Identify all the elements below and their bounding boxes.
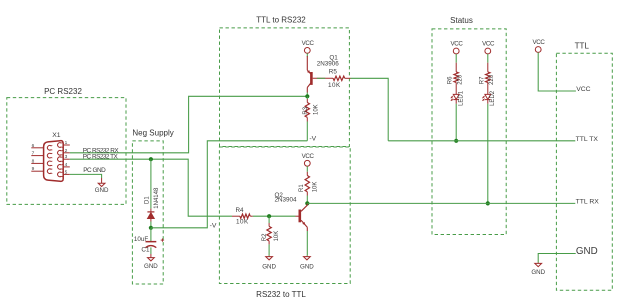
label PC RS232 RX [83, 147, 120, 154]
svg-text:PC RS232: PC RS232 [44, 87, 82, 96]
wire R2 top [268, 216, 270, 226]
svg-text:D1: D1 [145, 196, 151, 204]
resistor R1 10K [305, 176, 309, 192]
wire R6 to LED1 [455, 83, 457, 95]
resistor R2 10K [267, 226, 271, 241]
wire PC RS232 TX net (pin3 to R4) [70, 159, 232, 216]
pin numbers X1 [32, 140, 68, 175]
wire VCC to Q1 emitter [306, 53, 308, 56]
wire R1 bottom to node [306, 192, 308, 204]
node junction R4/R2/base [267, 214, 271, 218]
label 2N3904 (Q2 value) [275, 197, 298, 204]
label R3 [303, 106, 309, 114]
svg-text:PC RS232 TX: PC RS232 TX [83, 154, 119, 161]
label R1 [299, 184, 305, 192]
svg-text:10K: 10K [274, 231, 280, 242]
svg-text:TTL TX: TTL TX [576, 136, 599, 143]
svg-text:RS232 to TTL: RS232 to TTL [256, 290, 306, 299]
wire D1 anode to -V node [150, 222, 152, 228]
transistor Q1 2N3906 [307, 56, 311, 93]
wire R3 bottom to -V [306, 117, 308, 140]
wire D1 anode from TX line [150, 159, 152, 212]
svg-text:4: 4 [65, 162, 68, 168]
svg-text:2N3906: 2N3906 [317, 60, 340, 67]
svg-text:220: 220 [458, 74, 464, 85]
label 220 (R7 value) [489, 74, 495, 85]
label R6 [448, 76, 454, 84]
ground Q2 GND symbol [300, 256, 314, 271]
svg-text:X1: X1 [52, 132, 61, 139]
ground R2 GND symbol [262, 256, 276, 271]
svg-text:-V: -V [210, 222, 217, 229]
label Q2 [275, 192, 284, 199]
svg-text:VCC: VCC [302, 40, 315, 47]
resistor R7 220 [486, 72, 490, 83]
svg-text:TTL: TTL [575, 42, 590, 51]
power VCC at R7 [482, 41, 495, 54]
wire TTL RX net [307, 202, 575, 204]
label TTL TX [576, 136, 599, 143]
svg-text:9: 9 [32, 166, 35, 172]
svg-text:GND: GND [300, 264, 314, 271]
wire C1 top [150, 228, 152, 241]
label Q1 [329, 54, 338, 61]
svg-text:VCC: VCC [482, 41, 495, 48]
wire VCC to R7 [487, 54, 489, 72]
label LED2 [490, 90, 496, 106]
svg-text:GND: GND [144, 263, 158, 270]
wire Q2 base to R4/R2 node [253, 215, 296, 217]
label 10K (R2 value) [274, 231, 280, 242]
wire GND to TTL box [538, 254, 576, 263]
wire LED2 to bus [487, 104, 489, 204]
svg-text:LED1: LED1 [458, 90, 464, 106]
label 10uF [134, 236, 149, 243]
svg-text:10K: 10K [328, 82, 341, 89]
svg-text:Status: Status [450, 16, 473, 25]
svg-text:R1: R1 [299, 184, 305, 192]
svg-text:10K: 10K [314, 104, 320, 115]
svg-text:R7: R7 [479, 76, 485, 84]
label TTL RX [576, 198, 600, 205]
svg-text:GND: GND [262, 264, 276, 271]
node junction TX/D1 [149, 157, 153, 161]
wire C1 bottom to GND [150, 247, 152, 254]
label 1N4148 [154, 187, 160, 209]
LED LED2 [482, 94, 490, 103]
wire TTL TX net [388, 140, 575, 142]
wire R7 to LED2 [487, 83, 489, 95]
ground C1 GND symbol [144, 254, 158, 270]
frame: TTL to RS232 module box [220, 15, 350, 146]
svg-text:LED2: LED2 [490, 90, 496, 106]
transistor Q2 2N3904 [296, 203, 308, 231]
svg-text:5: 5 [65, 169, 68, 175]
resistor R3 10K [305, 103, 309, 118]
svg-text:1N4148: 1N4148 [154, 187, 160, 209]
wire R5 to TTL TX line [345, 78, 389, 141]
ground TTL GND symbol [531, 263, 545, 276]
diode D1 1N4148 [147, 212, 154, 222]
frame: PC RS232 module box [7, 87, 126, 205]
svg-text:GND: GND [531, 269, 545, 276]
label PC RS232 TX [83, 154, 119, 161]
frame: Neg Supply module box [132, 129, 173, 284]
label R5 [329, 68, 338, 75]
svg-text:220: 220 [489, 74, 495, 85]
label PC GND [83, 167, 106, 174]
label X1 [52, 132, 61, 139]
svg-text:GND: GND [576, 246, 598, 257]
label R4 [236, 207, 245, 214]
label D1 [145, 196, 151, 204]
wire R3 top pin [306, 96, 308, 102]
node junction -V (D1/C1) [149, 226, 153, 230]
node junction Q2 collector / R1 / TTL RX [305, 201, 309, 205]
svg-text:TTL RX: TTL RX [576, 198, 600, 205]
label 2N3906 (Q1 value) [317, 60, 340, 67]
wire Q1 base to R5 [313, 77, 333, 79]
svg-text:Neg Supply: Neg Supply [132, 129, 173, 138]
node junction LED1 / TTL TX [454, 139, 458, 143]
label 10K (R3 value) [314, 104, 320, 115]
label R7 [479, 76, 485, 84]
resistor R5 10K [333, 76, 345, 80]
svg-text:PC GND: PC GND [83, 167, 106, 174]
capacitor C1 10uF [146, 238, 165, 247]
label 10K (R5 value) [328, 82, 341, 89]
svg-text:GND: GND [95, 187, 109, 194]
label 10K (R1 value) [313, 182, 319, 193]
svg-text:10uF: 10uF [134, 236, 149, 243]
label GND (TTL port) [576, 246, 598, 257]
wire R2 bottom to GND [268, 241, 270, 256]
power VCC port (top right) [532, 39, 545, 52]
wire -V net (to R3 bottom) [151, 141, 307, 228]
wire VCC to R6 [455, 54, 457, 72]
svg-text:VCC: VCC [576, 86, 590, 93]
svg-text:R3: R3 [303, 106, 309, 114]
frame: TTL module box [556, 42, 612, 291]
label 10K (R4 value) [236, 218, 249, 225]
wire VCC to R1 [306, 166, 308, 175]
label LED1 [458, 90, 464, 106]
svg-text:VCC: VCC [532, 39, 545, 46]
wire Q1 collector to node [306, 93, 308, 97]
svg-text:VCC: VCC [302, 153, 315, 160]
svg-text:R6: R6 [448, 76, 454, 84]
node junction LED2 / TTL RX [486, 201, 490, 205]
svg-text:2N3904: 2N3904 [275, 197, 298, 204]
svg-text:R4: R4 [236, 207, 245, 214]
svg-text:TTL to RS232: TTL to RS232 [256, 15, 306, 24]
svg-text:C1: C1 [141, 247, 150, 254]
svg-text:8: 8 [32, 158, 35, 164]
ground PC GND symbol [95, 178, 109, 194]
wire PC GND net [70, 174, 102, 178]
connector X1 (DB9) [31, 141, 70, 182]
power VCC at R1 [302, 153, 315, 166]
svg-text:10K: 10K [313, 182, 319, 193]
power VCC at R6 [450, 41, 463, 54]
svg-text:VCC: VCC [450, 41, 463, 48]
frame: RS232 to TTL module box [219, 147, 350, 299]
label VCC (TTL port) [576, 86, 590, 93]
label 220 (R6 value) [458, 74, 464, 85]
power VCC at Q1 [302, 40, 315, 53]
resistor R4 10K [232, 214, 253, 218]
LED LED1 [451, 94, 459, 103]
svg-text:1: 1 [65, 140, 68, 146]
svg-text:7: 7 [32, 151, 35, 157]
label -V (near R3) [309, 136, 316, 143]
wire Q2 emitter to GND [306, 231, 308, 256]
svg-text:2: 2 [65, 148, 68, 154]
label -V (near neg supply) [210, 222, 217, 229]
svg-text:6: 6 [32, 143, 35, 149]
svg-text:R5: R5 [329, 68, 338, 75]
resistor R6 220 [454, 72, 458, 83]
svg-text:R2: R2 [262, 233, 268, 241]
svg-text:-V: -V [309, 136, 316, 143]
svg-text:10K: 10K [236, 218, 249, 225]
wire VCC to TTL box [538, 52, 576, 91]
svg-text:3: 3 [65, 154, 68, 160]
label C1 [141, 247, 150, 254]
wire PC RS232 RX net (pin2 to Q1 collector) [70, 96, 307, 153]
node junction Q1 collector / R3 / RX wire [305, 94, 309, 98]
label R2 [262, 233, 268, 241]
frame: Status module box [432, 16, 506, 234]
wire LED1 to bus [455, 104, 457, 141]
